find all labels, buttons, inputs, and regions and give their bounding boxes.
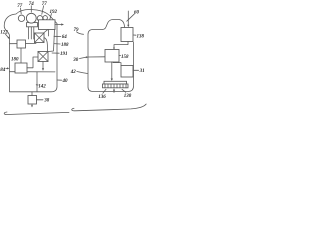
box 38 [28, 96, 37, 105]
svg-text:192: 192 [50, 10, 58, 15]
blower box 1 [35, 33, 45, 43]
sensor box 122 [17, 40, 26, 48]
box 31 [121, 66, 133, 78]
sheet path right [72, 104, 146, 111]
svg-text:84: 84 [0, 68, 6, 73]
svg-text:77: 77 [17, 4, 23, 9]
wire [30, 23, 32, 39]
fuser stack hatched plate [103, 84, 129, 88]
wire 138 to 158 [114, 42, 128, 49]
svg-text:138: 138 [137, 34, 145, 39]
box 158 [105, 50, 119, 63]
svg-text:40: 40 [62, 79, 69, 84]
roller 77 right [37, 16, 43, 22]
svg-text:60: 60 [134, 10, 140, 15]
arrow below stack pointing up [113, 90, 115, 92]
svg-text:122: 122 [0, 30, 8, 35]
developer unit under drum [27, 23, 38, 27]
right figure housing with duct top [88, 20, 134, 92]
wire 180 to blower2 [27, 57, 38, 68]
wire 158 to 31 [113, 62, 121, 66]
box 138 [121, 28, 133, 42]
label 136 [103, 89, 106, 93]
wire 192 to blower1 [48, 30, 50, 37]
blower box 2 [38, 52, 48, 62]
feed line through sensor box [10, 43, 37, 45]
svg-text:158: 158 [121, 55, 129, 60]
roller 77 left [18, 15, 24, 21]
drum 74 [26, 13, 36, 23]
roller small [43, 16, 47, 20]
svg-text:30: 30 [72, 58, 79, 63]
left figure housing outline [4, 9, 57, 91]
arrow below blower 2 [42, 62, 44, 69]
svg-text:42: 42 [70, 70, 77, 75]
wire from circles to blower 1 [28, 24, 30, 40]
svg-text:142: 142 [38, 84, 46, 89]
wire blower1 to blower2 [44, 38, 48, 52]
box 192 [39, 20, 56, 30]
fuser stack top plate [104, 81, 127, 84]
svg-text:136: 136 [98, 95, 106, 100]
svg-text:31: 31 [139, 69, 145, 74]
wire [33, 24, 35, 40]
sheet path left [4, 112, 69, 115]
label 130 [122, 89, 126, 92]
svg-text:191: 191 [60, 52, 68, 57]
svg-text:77: 77 [42, 2, 48, 7]
wire 192 to blower1 diag [44, 30, 48, 33]
wire 64/188/191 [49, 30, 55, 52]
label 138 [134, 34, 137, 36]
svg-text:130: 130 [124, 94, 132, 99]
svg-text:180: 180 [11, 57, 19, 62]
arrow out of 192 [55, 24, 62, 26]
svg-text:188: 188 [61, 43, 69, 48]
arrow 158 to fuser stack [111, 62, 113, 79]
wall 142 [36, 72, 38, 92]
wire sensor to 180 [20, 48, 22, 63]
divider wall [10, 71, 56, 73]
svg-text:38: 38 [43, 98, 50, 103]
box 180 [15, 63, 27, 73]
svg-text:64: 64 [62, 35, 68, 40]
arrow below box 38 [31, 104, 33, 106]
arrow into 138 [127, 11, 129, 25]
